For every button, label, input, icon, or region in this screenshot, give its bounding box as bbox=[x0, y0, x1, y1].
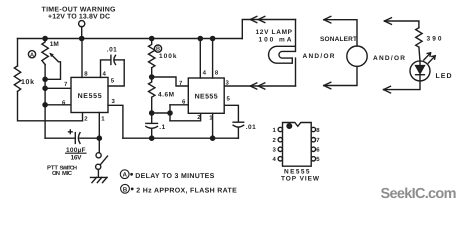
svg-text:100k: 100k bbox=[159, 53, 177, 60]
wire to pin 6 U1 bbox=[45, 104, 71, 106]
svg-text:10k: 10k bbox=[21, 78, 34, 86]
svg-text:6: 6 bbox=[316, 147, 320, 154]
junction dot rail/100k bbox=[150, 36, 154, 40]
note B circle bbox=[121, 184, 130, 193]
LED D1 bbox=[410, 61, 430, 81]
svg-text:NE555: NE555 bbox=[284, 169, 310, 176]
text AND/OR 2 bbox=[373, 55, 405, 62]
switch PTT labels bbox=[47, 164, 77, 177]
pin 4 U1 lead bbox=[101, 60, 110, 78]
svg-text:.01: .01 bbox=[246, 124, 256, 131]
potentiometer 1M bbox=[42, 39, 48, 65]
capacitor C5 .01 bbox=[233, 121, 244, 123]
svg-text:12V LAMP: 12V LAMP bbox=[256, 29, 293, 36]
svg-text:B: B bbox=[123, 186, 128, 193]
wire to pin 6 U2 bbox=[170, 104, 188, 106]
svg-text:ON: ON bbox=[52, 170, 60, 177]
wire 4.6M to cap junction bbox=[151, 97, 153, 113]
svg-text:5: 5 bbox=[316, 156, 320, 163]
ground bbox=[91, 176, 108, 178]
svg-text:100 mA: 100 mA bbox=[259, 37, 292, 44]
svg-text:2 Hz APPROX, FLASH RATE: 2 Hz APPROX, FLASH RATE bbox=[136, 188, 237, 195]
pin 4 U2 lead bbox=[199, 39, 201, 79]
svg-text:TOP VIEW: TOP VIEW bbox=[281, 176, 320, 183]
wire 10k bottom to pin2 wire bbox=[18, 91, 83, 120]
note A text bbox=[135, 173, 214, 180]
wire left rail down bbox=[17, 39, 19, 66]
wire 100k to junction bbox=[151, 68, 153, 77]
junction dot rail/pot bbox=[43, 36, 47, 40]
svg-text:B: B bbox=[156, 47, 160, 53]
junction dot rail/pin8 U2 bbox=[211, 36, 215, 40]
node A circle bbox=[28, 51, 35, 58]
wire pin 3 U2 output to lamp bbox=[224, 85, 295, 87]
wire LED branch top with arrow bbox=[384, 21, 419, 28]
svg-text:SONALERT: SONALERT bbox=[320, 36, 357, 43]
svg-text:MIC: MIC bbox=[62, 170, 73, 177]
resistor 390 bbox=[416, 28, 422, 47]
wire rail riser to lamp bbox=[242, 20, 295, 39]
note B bullet bbox=[131, 188, 134, 191]
svg-text:AND/OR: AND/OR bbox=[373, 55, 405, 62]
op-amp U1 NE555 box bbox=[71, 77, 108, 112]
svg-text:4: 4 bbox=[103, 71, 107, 78]
note B text bbox=[136, 188, 237, 195]
DIP left pin stubs bbox=[278, 127, 282, 131]
svg-text:NE555: NE555 bbox=[195, 93, 218, 100]
svg-text:2: 2 bbox=[84, 115, 88, 122]
junction dot pin7 wire bbox=[43, 86, 47, 90]
capacitor C1 .01 bbox=[110, 55, 112, 64]
wire sonalert top with arrow bbox=[324, 20, 357, 46]
junction dot pin1/cap/switch bbox=[97, 136, 101, 140]
switch PTT on mic bbox=[96, 153, 101, 158]
wire pot wiper arm bbox=[45, 54, 60, 79]
svg-text:.1: .1 bbox=[159, 124, 165, 131]
junction dot rail/pin4 U2 bbox=[198, 36, 202, 40]
wire +12V top rail bbox=[18, 38, 243, 40]
svg-text:1: 1 bbox=[101, 115, 105, 122]
lamp DS1 bbox=[295, 20, 297, 52]
svg-text:A: A bbox=[30, 52, 34, 58]
pin labels U2 bbox=[179, 70, 231, 122]
capacitor C2 100uF plus sign bbox=[69, 130, 73, 134]
junction dot .1cap/net2 bbox=[150, 136, 154, 140]
wire net2 bottom rail bbox=[123, 137, 238, 139]
capacitor C4 .1 bbox=[151, 113, 153, 123]
pin 1 U2 lead bbox=[212, 113, 214, 138]
wire pot body vertical bbox=[44, 65, 46, 139]
DIP pin numbers bbox=[273, 127, 321, 163]
wire sonalert bottom with arrow bbox=[324, 66, 357, 85]
wire net1 bottom left bbox=[45, 137, 74, 139]
svg-text:8: 8 bbox=[84, 71, 88, 78]
pin 8 U1 lead bbox=[81, 39, 83, 78]
resistor 100k bbox=[149, 39, 155, 68]
svg-text:NE555: NE555 bbox=[78, 93, 102, 100]
chevron arrows top lamp wire bbox=[250, 16, 264, 22]
wire cap to pin 5 U1 bbox=[108, 60, 124, 86]
svg-text:7: 7 bbox=[64, 81, 68, 88]
op-amp U2 NE555 box bbox=[188, 78, 224, 113]
wire pin 3 U1 output bbox=[108, 105, 123, 138]
svg-text:LED: LED bbox=[436, 73, 452, 80]
pin 1 U1 lead bbox=[98, 113, 100, 153]
svg-text:4: 4 bbox=[273, 156, 277, 163]
junction dot pin1 U2/net2 bbox=[211, 136, 215, 140]
svg-text:390: 390 bbox=[427, 36, 442, 43]
junction dot pins 2-6 tie bbox=[168, 111, 172, 115]
wire pin2 U1 lead bbox=[82, 113, 84, 121]
pot wiper arrowhead bbox=[49, 53, 54, 58]
resistor 10k bbox=[14, 66, 20, 92]
wire resistor to LED bbox=[419, 47, 420, 61]
DIP right pin stubs bbox=[311, 127, 315, 131]
chevron arrows lamp output wire bbox=[250, 83, 264, 89]
pin 1 index dot bbox=[287, 124, 292, 129]
sonalert SP1 circle bbox=[347, 46, 367, 66]
svg-text:DELAY TO 3 MINUTES: DELAY TO 3 MINUTES bbox=[135, 173, 214, 180]
text SONALERT bbox=[320, 36, 357, 43]
LED light arrows bbox=[424, 53, 435, 63]
svg-text:SeekIC.com: SeekIC.com bbox=[381, 186, 457, 202]
watermark SeekIC.com bbox=[381, 186, 457, 202]
svg-text:1: 1 bbox=[273, 127, 277, 134]
svg-text:4.6M: 4.6M bbox=[158, 92, 174, 99]
DIP caption bbox=[281, 169, 320, 183]
pin 8 U2 lead bbox=[212, 39, 214, 79]
svg-text:.01: .01 bbox=[107, 47, 117, 54]
junction dot wiper return bbox=[43, 77, 47, 81]
wire LED bottom with arrow bbox=[384, 81, 421, 90]
wire pin 5 U2 to cap bbox=[224, 105, 238, 122]
capacitor C2 100uF plates bbox=[74, 133, 76, 144]
svg-text:16V: 16V bbox=[71, 154, 83, 161]
resistor 4.6M bbox=[149, 77, 155, 97]
svg-text:1M: 1M bbox=[50, 41, 59, 48]
note A circle bbox=[120, 170, 129, 179]
junction dot rail/terminal bbox=[80, 36, 84, 40]
note A bullet bbox=[130, 173, 133, 176]
wire terminal to +12V rail bbox=[81, 27, 83, 39]
svg-text:8: 8 bbox=[316, 127, 320, 134]
svg-text:+12V TO 13.8V DC: +12V TO 13.8V DC bbox=[48, 13, 110, 20]
node +12V supply terminal label bbox=[42, 7, 117, 21]
node B circle bbox=[154, 45, 161, 52]
wire to pin 7 U1 bbox=[45, 87, 71, 89]
svg-text:4: 4 bbox=[203, 70, 207, 77]
lamp 12V labels bbox=[256, 29, 293, 44]
svg-text:5: 5 bbox=[227, 95, 231, 102]
svg-text:3: 3 bbox=[112, 98, 116, 105]
junction dot 4.6M/.1cap bbox=[150, 111, 154, 115]
svg-text:5: 5 bbox=[111, 78, 115, 85]
svg-text:AND/OR: AND/OR bbox=[303, 53, 335, 60]
svg-text:3: 3 bbox=[273, 147, 277, 154]
wire junction to pins 2,6 U2 bbox=[152, 112, 170, 114]
pin labels U1 bbox=[62, 71, 116, 123]
node +12V terminal bbox=[79, 21, 85, 27]
svg-text:2: 2 bbox=[273, 137, 277, 144]
U3 NE555 DIP top view body bbox=[283, 123, 312, 167]
line under 100uF bbox=[66, 152, 87, 154]
svg-text:8: 8 bbox=[215, 70, 219, 77]
wire to pin 7 U2 bbox=[152, 77, 189, 86]
junction dot pin6 wire bbox=[43, 103, 47, 107]
svg-text:A: A bbox=[122, 172, 127, 179]
text AND/OR 1 bbox=[303, 53, 335, 60]
svg-text:7: 7 bbox=[316, 137, 320, 144]
wire to pin 2 U2 bbox=[170, 113, 201, 121]
junction dot 100k/4.6M bbox=[150, 75, 154, 79]
